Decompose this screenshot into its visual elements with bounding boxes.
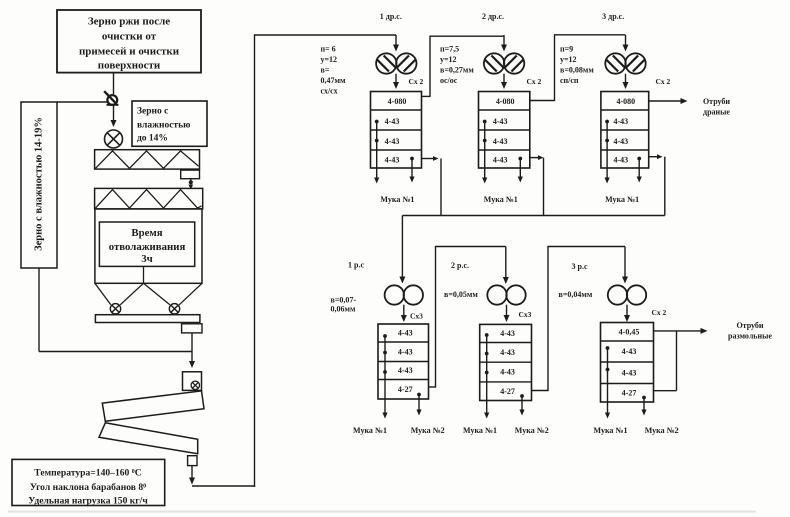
svg-text:Мука №1: Мука №1 [594, 426, 628, 435]
svg-text:4-43: 4-43 [385, 117, 400, 126]
svg-text:поверхности: поверхности [98, 60, 161, 72]
box: temperature / drum incline / load parameters [12, 459, 165, 506]
svg-text:в=0,04мм: в=0,04мм [559, 290, 593, 299]
weigher symbol [104, 91, 118, 105]
wire dryer discharge down with arrow [189, 466, 195, 485]
svg-text:Сх 2: Сх 2 [409, 77, 424, 86]
label 3 р.с [572, 262, 588, 271]
drying drum 2 (inclined) [99, 423, 198, 454]
svg-text:п=7,5: п=7,5 [440, 45, 459, 54]
param text в= of 1 др.с. [321, 66, 330, 75]
wire rolls to sifter 2 р.с. [504, 305, 510, 322]
label Мука №1 under 1 др.с. [380, 195, 414, 204]
svg-text:4-27: 4-27 [398, 385, 413, 394]
flour collect line left in 1 р.с [382, 334, 387, 418]
param text п= 6 of 1 др.с. [321, 45, 336, 54]
svg-text:1 др.с.: 1 др.с. [380, 12, 402, 21]
param text п=9 of 3 др.с. [560, 45, 573, 54]
svg-text:4-43: 4-43 [500, 348, 515, 357]
outlet box under collecting conveyor [182, 324, 202, 333]
label Сх 2 of 3 р.с [652, 308, 667, 317]
svg-text:ос/ос: ос/ос [440, 76, 458, 85]
wire outlet down to dryer feed [189, 333, 195, 368]
svg-text:Удельная нагрузка 150 кг/ч: Удельная нагрузка 150 кг/ч [28, 496, 148, 507]
label Сх3 of 2 р.с. [519, 310, 532, 319]
bin center divider [143, 266, 145, 283]
dryer discharge box [188, 456, 197, 466]
flour collect line right in 3 др.с. [637, 157, 642, 183]
label 1 р.с [348, 261, 364, 270]
svg-text:в=: в= [321, 66, 330, 75]
header drop to 1 р.с rolls [399, 216, 405, 284]
svg-text:п= 6: п= 6 [321, 45, 336, 54]
feed arrow into rolls 3 др.с. [623, 35, 629, 52]
param text в=0,07-0,06мм of 1 р.с [331, 296, 357, 314]
svg-text:1 р.с: 1 р.с [348, 261, 364, 270]
tails wire 1 др.с. right [422, 156, 442, 215]
stub 4-080 of 2 др.с. up-over to 3 др.с. [530, 34, 626, 101]
svg-text:4-43: 4-43 [622, 368, 637, 377]
label 1 др.с. [380, 12, 402, 21]
flour collect line right in 2 др.с. [518, 157, 523, 183]
wire rolls to sifter 3 р.с [624, 305, 630, 322]
sifter section stack 2 р.с. [480, 324, 532, 400]
svg-text:4-43: 4-43 [385, 137, 400, 146]
param text у=12 of 2 др.с. [440, 55, 457, 64]
label Сх3 of 1 р.с [410, 312, 423, 321]
wire bottom run to elevator [192, 485, 255, 487]
tails header wire [402, 215, 664, 217]
svg-text:в=0,05мм: в=0,05мм [444, 290, 478, 299]
drop wire conveyor1 to conveyor2 [188, 179, 193, 190]
roller mill 3 др.с. (fluted rolls) [605, 53, 645, 73]
collecting conveyor under bin [95, 315, 199, 323]
svg-text:4-43: 4-43 [398, 347, 413, 356]
svg-text:Отруби: Отруби [736, 321, 763, 330]
svg-text:Сх3: Сх3 [519, 310, 532, 319]
label Мука №2 under 2 р.с. [515, 426, 549, 435]
svg-text:4-27: 4-27 [500, 387, 515, 396]
svg-text:3ч: 3ч [141, 253, 153, 265]
box: tempering time 3h (Время отволаживания 3ч) [99, 222, 194, 266]
svg-text:4-43: 4-43 [493, 156, 508, 165]
svg-text:в=0,08мм: в=0,08мм [560, 66, 594, 75]
bin valve 1 (circle-X) [110, 304, 120, 314]
tails wire 2 др.с. right [530, 155, 544, 215]
roller mill 1 р.с (smooth rolls) [385, 285, 423, 304]
svg-text:драные: драные [703, 108, 730, 117]
param text п=7,5 of 2 др.с. [440, 45, 459, 54]
label Мука №1 under 3 др.с. [605, 195, 639, 204]
flour collect line left in 3 р.с [605, 346, 610, 418]
feed arrow into rolls 1 др.с. [393, 35, 399, 52]
roller mill 3 р.с (smooth rolls) [608, 285, 646, 304]
svg-text:Температура=140–160 0С: Температура=140–160 0С [34, 468, 141, 479]
recycle bracket on 3 р.с [654, 331, 677, 391]
svg-text:в=0,07-: в=0,07- [331, 296, 357, 305]
bin funnel left [95, 283, 144, 305]
wire rolls to sifter 2 др.с. [501, 74, 507, 89]
stub 4-080 of 1 др.с. up-over to 2 др.с. [422, 36, 505, 97]
wire rolls to sifter 1 р.с [401, 305, 407, 322]
svg-text:Зерно ржи после: Зерно ржи после [88, 16, 170, 28]
svg-text:у=12: у=12 [321, 55, 338, 64]
svg-text:Отруби: Отруби [703, 97, 730, 106]
dryer feed box [183, 372, 202, 391]
svg-text:4-43: 4-43 [622, 347, 637, 356]
screw conveyor 1 [95, 150, 200, 169]
wire from top box down to weigher [113, 73, 115, 94]
svg-text:Зерно с: Зерно с [137, 107, 168, 117]
roller mill 2 р.с. (smooth rolls) [487, 285, 525, 304]
svg-text:4-43: 4-43 [493, 137, 508, 146]
svg-text:у=12: у=12 [560, 55, 577, 64]
label Отруби размольные [728, 321, 772, 341]
svg-text:Мука №1: Мука №1 [380, 195, 414, 204]
svg-text:Мука №1: Мука №1 [484, 195, 518, 204]
svg-text:до 14%: до 14% [137, 134, 168, 144]
wire weigher to valve with arrow [111, 105, 117, 127]
svg-text:3 р.с: 3 р.с [572, 262, 588, 271]
param text в=0,04мм of 3 р.с [559, 290, 593, 299]
svg-text:4-43: 4-43 [613, 137, 628, 146]
param text в=0,05мм of 2 р.с [444, 290, 478, 299]
param text в=0,27мм of 2 др.с. [440, 66, 474, 75]
param text у=12 of 1 др.с. [321, 55, 338, 64]
svg-text:Сх 2: Сх 2 [527, 77, 542, 86]
sifter section stack 1 р.с [378, 324, 429, 399]
svg-text:Мука №1: Мука №1 [605, 195, 639, 204]
svg-text:очистки от: очистки от [102, 31, 157, 43]
svg-text:примесей и очистки: примесей и очистки [79, 46, 180, 58]
drying drum 1 (inclined) [102, 391, 204, 421]
tails wire 1 р.с to 2 р.с [429, 246, 509, 388]
wire from weigher left to moist-grain bypass [57, 101, 108, 103]
flour collect line right in 2 р.с. [519, 394, 524, 415]
svg-text:4-0,45: 4-0,45 [619, 327, 640, 336]
svg-text:4-080: 4-080 [616, 97, 635, 106]
tempering bin outline [95, 209, 202, 283]
svg-text:4-43: 4-43 [500, 368, 515, 377]
vertical label box: grain with moisture 14-19% [21, 102, 57, 268]
param text у=12 of 3 др.с. [560, 55, 577, 64]
roller mill 1 др.с. (fluted rolls) [376, 53, 416, 73]
label 2 др.с. [482, 12, 504, 21]
svg-text:2 др.с.: 2 др.с. [482, 12, 504, 21]
svg-text:Мука №2: Мука №2 [645, 426, 679, 435]
flour collect line left in 1 др.с. [374, 120, 379, 184]
scan streak at bottom [8, 511, 756, 513]
label 2 р.с. [451, 261, 469, 270]
valve (circle with X) above screw conveyor 1 [105, 130, 123, 148]
label 3 др.с. [602, 12, 624, 21]
svg-text:сп/сп: сп/сп [560, 76, 579, 85]
elevator riser wire [254, 34, 256, 486]
label Отруби драные [703, 97, 730, 117]
svg-text:4-43: 4-43 [398, 366, 413, 375]
arrow 4-0,45 of 3 р.с to bran output [654, 328, 708, 334]
svg-text:4-080: 4-080 [388, 97, 407, 106]
param text сп/сп of 3 др.с. [560, 76, 579, 85]
param text 0,47мм of 1 др.с. [321, 76, 346, 85]
wire rolls to sifter 3 др.с. [623, 74, 629, 89]
label Мука №1 under 1 р.с [353, 426, 387, 435]
svg-text:4-43: 4-43 [493, 117, 508, 126]
svg-text:Мука №2: Мука №2 [515, 426, 549, 435]
svg-text:2 р.с.: 2 р.с. [451, 261, 469, 270]
svg-text:размольные: размольные [728, 332, 772, 341]
param text ос/ос of 2 др.с. [440, 76, 458, 85]
svg-text:Сх 2: Сх 2 [652, 308, 667, 317]
svg-text:4-27: 4-27 [622, 388, 637, 397]
tails wire 2 р.с to 3 р.с [532, 246, 629, 391]
label Мука №1 under 3 р.с [594, 426, 628, 435]
label Мука №2 under 1 р.с [411, 426, 445, 435]
svg-text:3 др.с.: 3 др.с. [602, 12, 624, 21]
flour collect line left in 2 р.с. [484, 333, 489, 418]
wire rolls to sifter 1 др.с. [393, 74, 399, 89]
arrow 4-080 of 3 др.с. to bran output [649, 98, 688, 104]
svg-text:Зерно с влажностью 14-19%: Зерно с влажностью 14-19% [34, 117, 45, 251]
svg-text:Угол наклона барабанов 80: Угол наклона барабанов 80 [30, 482, 146, 493]
sifter section stack 3 др.с. [601, 92, 649, 169]
sifter section stack 3 р.с [601, 323, 654, 403]
label Сх 2 of 1 др.с. [409, 77, 424, 86]
svg-text:влажностью: влажностью [137, 121, 190, 131]
svg-text:сх/сх: сх/сх [321, 87, 338, 96]
svg-text:4-43: 4-43 [398, 329, 413, 338]
svg-text:Сх 2: Сх 2 [656, 77, 671, 86]
svg-text:4-43: 4-43 [500, 329, 515, 338]
label Сх 2 of 3 др.с. [656, 77, 671, 86]
roller mill 2 др.с. (fluted rolls) [484, 53, 524, 73]
wire elevator top to 1st break system [255, 34, 397, 36]
label Мука №1 under 2 др.с. [484, 195, 518, 204]
box: grain of rye after cleaning (Зерно ржи после очистки) [57, 10, 201, 73]
svg-text:4-43: 4-43 [613, 156, 628, 165]
sifter section stack 1 др.с. [371, 92, 422, 169]
svg-text:в=0,27мм: в=0,27мм [440, 66, 474, 75]
label Мука №1 under 2 р.с. [463, 426, 497, 435]
bin funnel right [144, 283, 203, 305]
wire from label box bottom down [38, 268, 40, 352]
svg-text:4-43: 4-43 [385, 156, 400, 165]
svg-text:4-43: 4-43 [613, 117, 628, 126]
feed arrow into rolls 2 др.с. [501, 35, 507, 52]
flour collect line right in 1 др.с. [409, 157, 414, 183]
svg-text:Мука №1: Мука №1 [463, 426, 497, 435]
flour collect line left in 3 др.с. [605, 120, 610, 184]
svg-text:отволаживания: отволаживания [109, 241, 186, 253]
flour collect line right in 3 р.с [641, 396, 646, 416]
flour collect line left in 2 др.с. [482, 120, 487, 184]
svg-text:0,06мм: 0,06мм [331, 305, 356, 314]
tails wire 3 др.с. right [649, 154, 665, 215]
bin valve 2 (circle-X) [169, 304, 179, 314]
param text сх/сх of 1 др.с. [321, 87, 338, 96]
svg-text:у=12: у=12 [440, 55, 457, 64]
svg-text:Сх3: Сх3 [410, 312, 423, 321]
svg-text:Мука №2: Мука №2 [411, 426, 445, 435]
svg-text:Мука №1: Мука №1 [353, 426, 387, 435]
sifter section stack 2 др.с. [479, 92, 530, 169]
svg-text:4-080: 4-080 [496, 97, 515, 106]
flour collect line right in 1 р.с [416, 393, 421, 416]
screw conveyor 2 [95, 188, 203, 209]
small circle-X in dryer feed box [191, 381, 199, 389]
label Сх 2 of 2 др.с. [527, 77, 542, 86]
wire wet grain to dryer junction [39, 351, 192, 353]
box: grain with moisture to 14% (Зерно с влажностью до 14%) [132, 101, 207, 146]
param text в=0,08мм of 3 др.с. [560, 66, 594, 75]
svg-text:п=9: п=9 [560, 45, 573, 54]
svg-text:Время: Время [131, 227, 162, 239]
label Мука №2 under 3 р.с [645, 426, 679, 435]
outlet box under conveyor 1 right end [181, 170, 200, 179]
svg-text:0,47мм: 0,47мм [321, 76, 346, 85]
